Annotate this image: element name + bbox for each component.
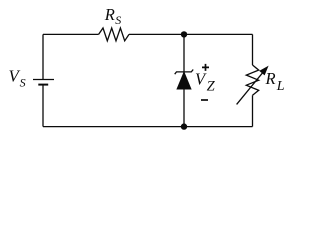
arrow shaft of variable resistor R_L <box>237 72 264 105</box>
arrowhead of R_L arrow <box>260 67 268 75</box>
resistor R_S <box>99 28 129 41</box>
svg-text:RS: RS <box>104 5 121 27</box>
plus sign <box>202 64 209 71</box>
zener diode triangle <box>177 72 191 89</box>
svg-text:VS: VS <box>9 67 26 90</box>
svg-text:RL: RL <box>265 69 285 94</box>
battery VS short plate <box>38 84 48 86</box>
wire bottom <box>43 126 253 128</box>
wire top-left segment <box>43 33 99 35</box>
wire left lower <box>42 85 44 127</box>
battery VS long plate <box>33 79 54 81</box>
wire middle branch <box>183 34 185 126</box>
junction dot bottom <box>181 123 187 129</box>
resistor R_L zigzag <box>246 65 258 95</box>
wire left upper <box>42 34 44 79</box>
zener diode bar <box>175 70 194 75</box>
minus sign <box>201 99 208 101</box>
wire right upper <box>252 34 254 65</box>
junction dot top <box>181 31 187 37</box>
wire right lower <box>252 95 254 126</box>
svg-text:VZ: VZ <box>195 70 216 95</box>
wire top-right segment <box>129 33 253 35</box>
